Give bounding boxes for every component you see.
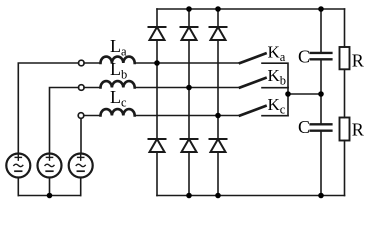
wire phase a left riser to source 1 [18,63,78,154]
inductor Lc [101,109,135,115]
wire midpoint link [288,93,321,95]
wire diode column 3 upper [217,9,219,27]
wire resistor branch middle [344,69,346,117]
wire source 2 to neutral [49,178,51,196]
wire diode column 1 middle [156,40,158,139]
node bottom bus / column 2 [186,193,192,199]
svg-text:R: R [352,50,364,70]
diode D2 (top row, column 2) [181,27,198,40]
AC source G1 [6,154,30,178]
wire phase a to switch Ka [135,62,240,64]
switch Ka blade [240,54,266,64]
node phase c / column 3 [215,113,221,119]
wire diode column 2 upper [188,9,190,27]
terminal circle phase a [79,60,85,66]
wire capacitor branch upper [320,9,322,52]
wire resistor branch lower [344,141,346,196]
diode D1 (top row, column 1) [149,27,166,40]
wire diode column 2 lower [188,152,190,196]
wire neutral bus [18,195,80,197]
capacitor C1 plates [311,53,332,59]
wire source 3 to neutral [80,178,82,196]
node top bus / column 2 [186,6,192,12]
wire phase c riser to source 3 [80,118,82,153]
svg-text:C: C [298,117,310,137]
wire capacitor branch middle [320,60,322,123]
node bottom bus / column 3 [215,193,221,199]
node phase a / column 1 [154,60,160,66]
terminal circle phase c [78,113,84,119]
wire diode column 3 middle [217,40,219,139]
wire diode column 2 middle [188,40,190,139]
wire source 1 to neutral [17,178,19,196]
switch Kb fixed contact stub [262,87,288,89]
switch Kc fixed contact stub [262,115,288,117]
inductor La [101,57,135,63]
inductor Lb [101,81,135,87]
wire diode column 1 upper [156,9,158,27]
switch Kc blade [240,106,266,116]
wire resistor branch upper [344,9,346,47]
terminal circle phase b [79,85,85,91]
wire phase c to switch Kc [135,115,240,117]
AC source G3 [69,154,93,178]
node top bus / capacitor branch [318,6,324,12]
wire diode column 3 lower [217,152,219,196]
wire diode column 1 lower [156,152,158,196]
diode D4 (bottom row, column 1) [149,139,166,152]
node capacitor midpoint [318,91,324,97]
capacitor C2 plates [311,124,332,130]
node phase b / column 2 [186,85,192,91]
wire capacitor branch lower [320,132,322,196]
diode D6 (bottom row, column 3) [210,139,227,152]
wire phase c to inductor [84,115,101,117]
node switch common / midpoint [285,91,291,97]
svg-text:R: R [352,119,364,139]
diode D5 (bottom row, column 2) [181,139,198,152]
wire phase a to inductor [84,62,100,64]
node neutral junction [47,193,53,199]
wire top DC bus [157,8,345,10]
wire switch common vertical [287,88,289,116]
switch Kb blade [240,78,266,88]
svg-text:C: C [298,46,310,66]
switch Ka fixed contact stub [262,63,288,87]
wire phase b to inductor [84,87,100,89]
resistor R2 body [340,118,350,141]
wire phase b left riser to source 2 [50,88,79,154]
AC source G2 [38,154,62,178]
resistor R1 body [340,47,350,69]
node top bus / column 3 [215,6,221,12]
diode D3 (top row, column 3) [210,27,227,40]
wire bottom DC bus [157,195,345,197]
wire phase b to switch Kb [135,87,240,89]
node bottom bus / capacitor branch [318,193,324,199]
